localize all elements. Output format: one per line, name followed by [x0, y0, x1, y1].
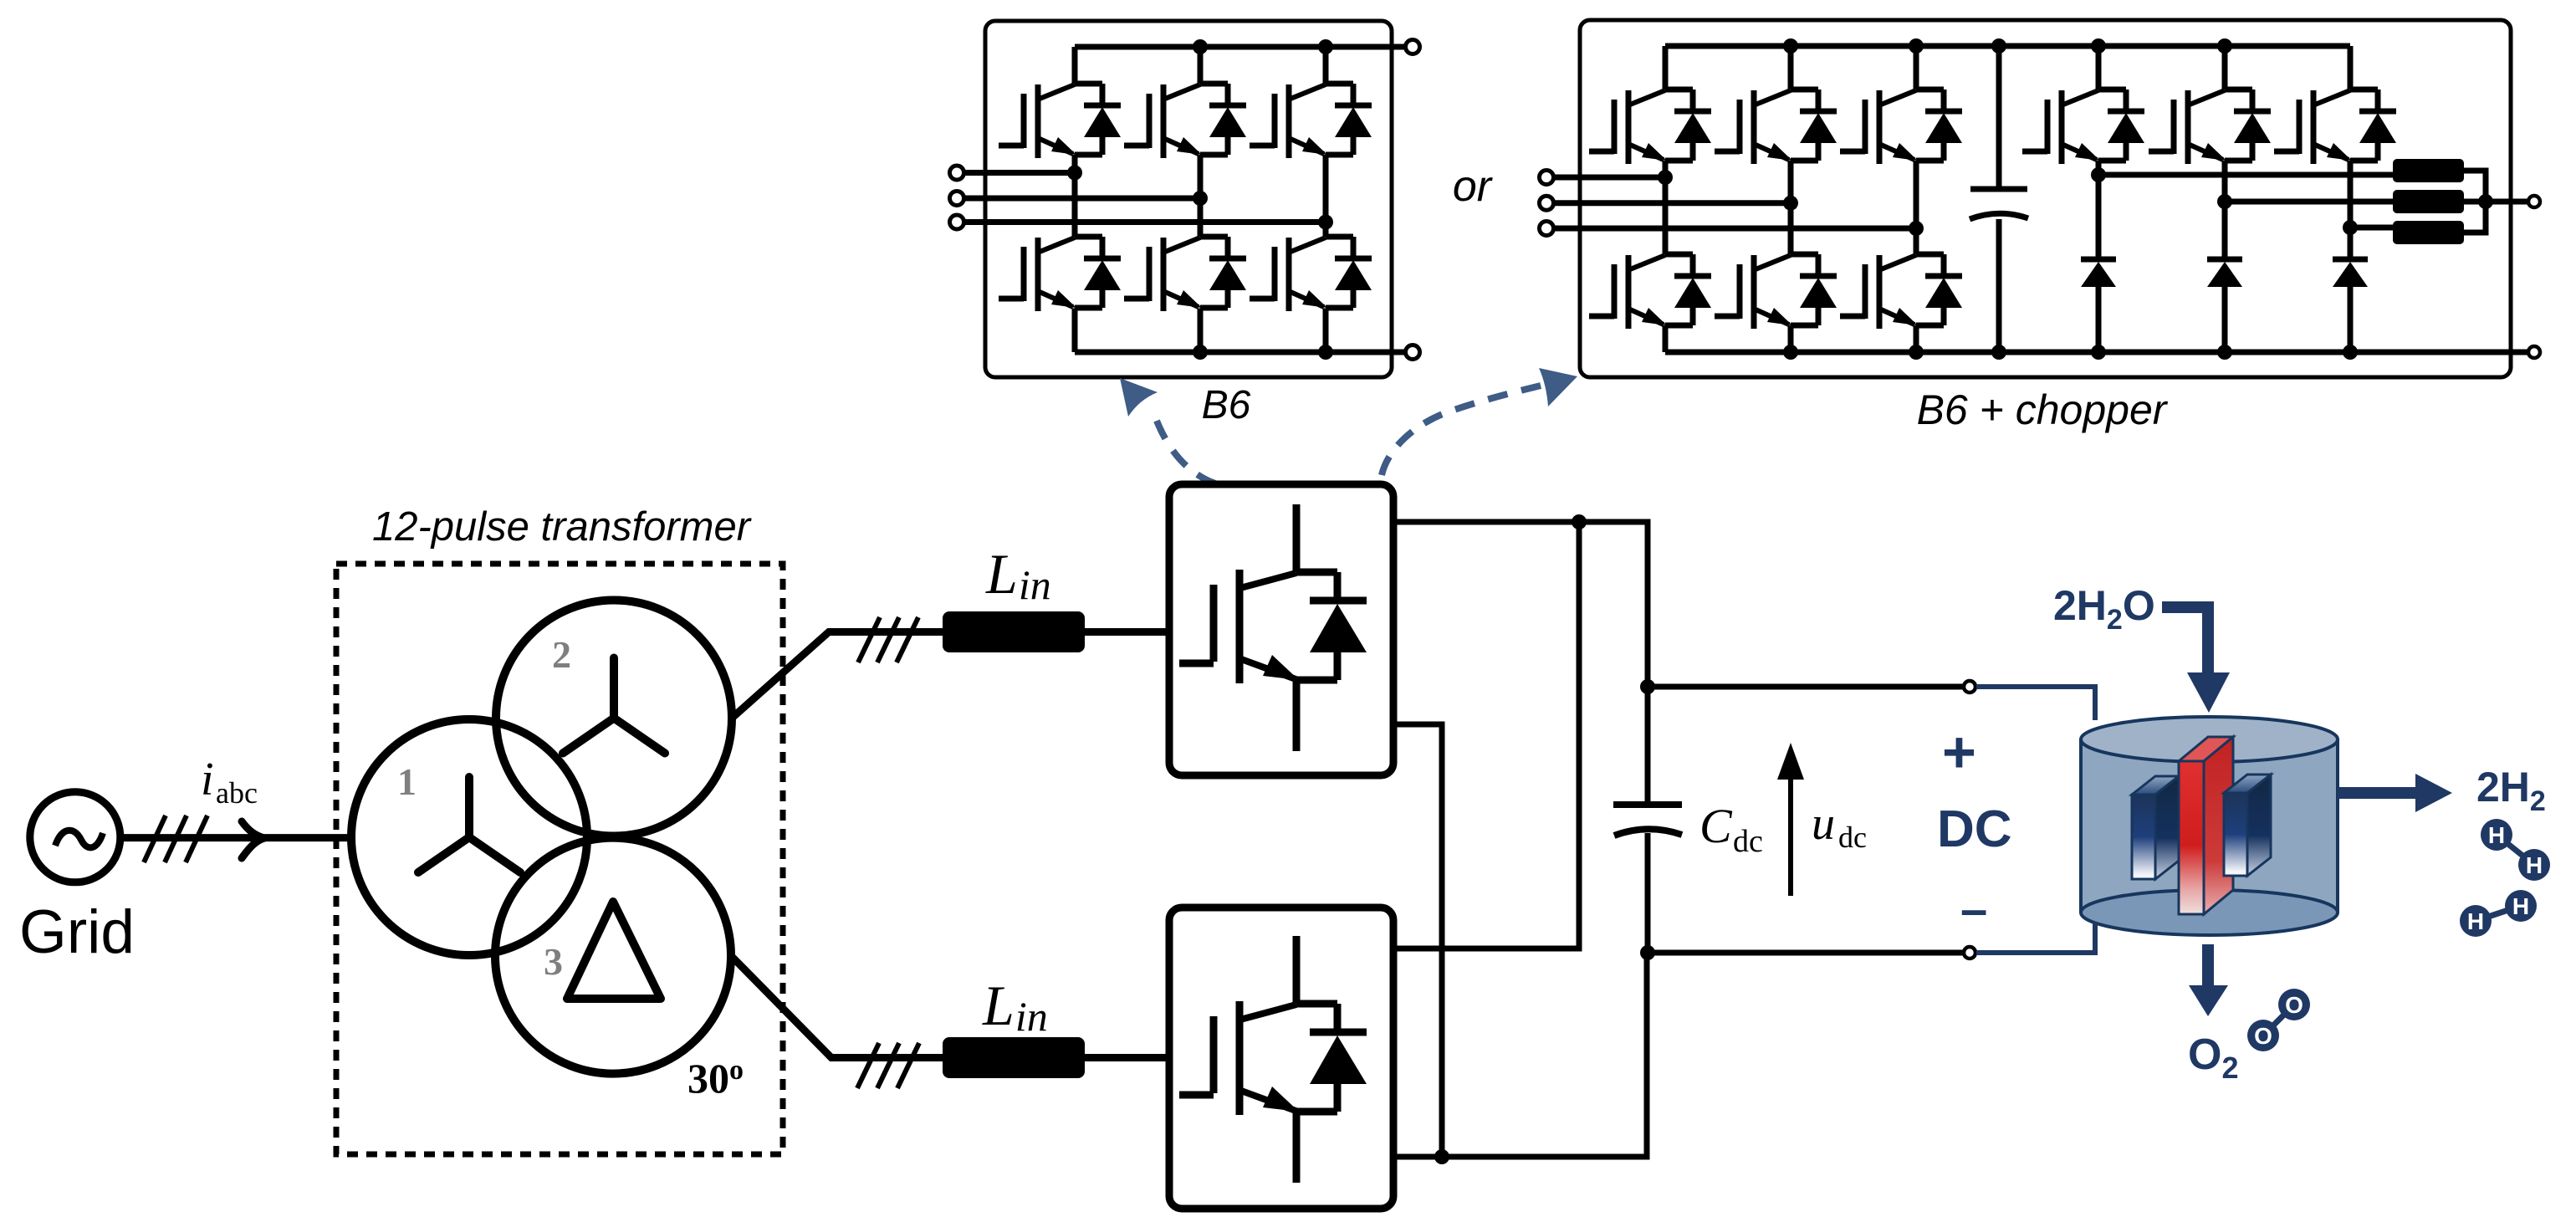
svg-text:3: 3 [544, 940, 563, 983]
svg-text:+: + [1942, 719, 1976, 785]
svg-text:2H2O: 2H2O [2053, 582, 2155, 636]
svg-text:30o: 30o [687, 1055, 744, 1102]
svg-text:i: i [201, 754, 214, 805]
svg-text:2H2: 2H2 [2476, 764, 2546, 817]
svg-text:H: H [2512, 893, 2529, 919]
svg-text:Lin: Lin [982, 974, 1048, 1040]
svg-text:Grid: Grid [19, 898, 135, 966]
svg-text:B6 + chopper: B6 + chopper [1917, 386, 2169, 433]
svg-text:H: H [2488, 822, 2505, 848]
svg-text:B6: B6 [1202, 383, 1251, 427]
svg-text:dc: dc [1838, 821, 1867, 854]
svg-text:C: C [1699, 799, 1733, 853]
svg-text:or: or [1453, 162, 1494, 211]
svg-text:2: 2 [552, 633, 571, 676]
svg-text:–: – [1960, 882, 1987, 937]
svg-text:H: H [2467, 908, 2484, 934]
svg-text:H: H [2526, 852, 2543, 878]
svg-text:O: O [2254, 1023, 2272, 1049]
svg-text:u: u [1812, 798, 1835, 850]
svg-text:abc: abc [216, 776, 258, 810]
svg-text:Lin: Lin [985, 542, 1051, 608]
svg-text:12-pulse transformer: 12-pulse transformer [372, 504, 752, 550]
svg-text:O: O [2285, 992, 2303, 1018]
svg-text:1: 1 [397, 760, 417, 803]
svg-text:O2: O2 [2188, 1030, 2238, 1085]
svg-text:DC: DC [1937, 800, 2012, 858]
svg-text:dc: dc [1733, 824, 1763, 859]
